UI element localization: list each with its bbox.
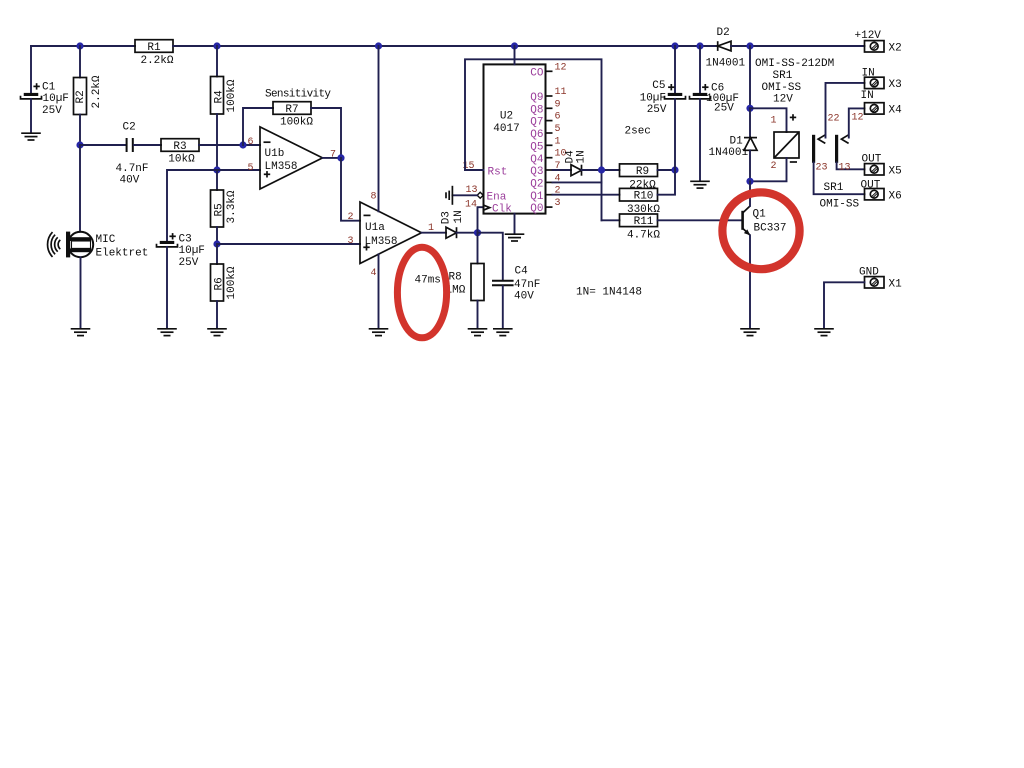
pin CO 12 — [530, 62, 566, 79]
svg-text:6: 6 — [555, 112, 561, 123]
svg-text:R5: R5 — [214, 203, 226, 216]
wire contact 13 to X5 — [837, 163, 865, 170]
svg-text:22: 22 — [828, 113, 840, 124]
svg-text:47nF: 47nF — [514, 279, 540, 291]
svg-text:2: 2 — [770, 161, 776, 172]
svg-text:2sec: 2sec — [625, 126, 651, 138]
resistor R4 — [211, 77, 239, 115]
capacitor C5 — [640, 80, 686, 116]
ground C6 — [690, 181, 710, 188]
svg-text:R9: R9 — [636, 166, 649, 178]
wire R3 to U1b pin6 — [199, 144, 260, 146]
node junction U2 VDD/rail — [511, 42, 518, 49]
wire pin3 row — [217, 243, 360, 245]
ground U1a pin4 — [369, 329, 389, 336]
wire Q1 to R10 — [553, 194, 620, 196]
svg-text:12: 12 — [852, 112, 864, 123]
svg-text:C1: C1 — [42, 82, 56, 94]
svg-text:Q0: Q0 — [530, 203, 543, 215]
terminal X2 — [855, 30, 902, 54]
svg-text:13: 13 — [839, 163, 851, 174]
svg-text:C4: C4 — [515, 266, 529, 278]
pin Q9 11 — [530, 87, 566, 104]
svg-text:Q1: Q1 — [753, 209, 767, 221]
svg-text:1: 1 — [555, 136, 561, 147]
pin Q6 5 — [530, 124, 560, 141]
wire U1a pin4 — [378, 254, 380, 328]
svg-text:47ms: 47ms — [415, 275, 441, 287]
svg-text:25V: 25V — [42, 105, 62, 117]
wire X1 to ground — [824, 282, 865, 328]
pin Q5 1 — [530, 136, 560, 153]
capacitor C6 — [690, 83, 740, 115]
svg-text:X2: X2 — [889, 42, 902, 54]
relay contact arrow left — [818, 135, 825, 144]
wire R5 bottom — [216, 227, 218, 244]
ground U2 VSS — [505, 234, 525, 241]
svg-text:R7: R7 — [285, 104, 298, 116]
ground X1 — [814, 329, 834, 336]
svg-text:Q9: Q9 — [530, 92, 543, 104]
svg-text:C3: C3 — [179, 234, 192, 246]
svg-text:Q6: Q6 — [530, 129, 543, 141]
ground C4 — [493, 329, 513, 336]
svg-text:IN: IN — [861, 90, 874, 102]
capacitor C3 — [157, 233, 205, 269]
wire top rail right segment to X2 — [731, 45, 865, 47]
node junction D1 bottom/Q1 collector — [746, 178, 753, 185]
node junction C5/rail — [671, 42, 678, 49]
ground C1 — [21, 133, 41, 140]
pin Q4 10 — [530, 149, 566, 166]
ground C3 — [157, 329, 177, 336]
wire C6 bottom — [699, 99, 701, 181]
wire C1 bottom — [30, 99, 32, 133]
wire Ena to ground — [452, 194, 477, 196]
resistor R9 — [620, 164, 658, 191]
wire C2 to R3 — [134, 144, 161, 146]
relay contact bar right — [835, 135, 838, 163]
resistor R11 — [620, 214, 661, 241]
node junction D4/R9/Rst — [598, 166, 605, 173]
node junction U1b out/R7 — [337, 154, 344, 161]
wire pin5 row — [167, 170, 260, 241]
resistor R3 — [161, 139, 199, 166]
svg-text:12: 12 — [555, 62, 567, 73]
svg-text:U2: U2 — [500, 111, 513, 123]
wire C3 bottom — [166, 247, 168, 328]
op-amp U1a — [348, 191, 435, 278]
pin Clk — [484, 204, 512, 216]
terminal X6 — [861, 180, 902, 203]
ground Q1 emitter — [740, 329, 760, 336]
svg-text:10µF: 10µF — [179, 245, 205, 257]
pin Q1 2 — [530, 186, 560, 203]
resistor R6 — [211, 244, 239, 328]
svg-text:Q2: Q2 — [530, 179, 543, 191]
svg-text:U1a: U1a — [365, 222, 385, 234]
svg-text:23: 23 — [816, 163, 828, 174]
wire D4 to R9 — [582, 169, 620, 171]
svg-text:25V: 25V — [179, 257, 199, 269]
svg-text:Clk: Clk — [492, 204, 512, 216]
wire Rst net — [465, 59, 602, 220]
wire node to C4 — [478, 233, 503, 280]
pin Q3 7 — [530, 161, 560, 178]
wire node to R8 — [477, 233, 479, 264]
resistor R10 — [620, 188, 661, 215]
svg-text:R4: R4 — [214, 90, 226, 104]
resistor R5 — [211, 190, 239, 227]
svg-text:4.7nF: 4.7nF — [116, 163, 149, 175]
wire R5 top — [216, 170, 218, 190]
svg-text:MIC: MIC — [96, 234, 116, 246]
node junction R2/C2/MIC — [76, 141, 83, 148]
svg-text:Q3: Q3 — [530, 166, 543, 178]
svg-text:6: 6 — [248, 137, 254, 148]
svg-text:14: 14 — [465, 200, 477, 211]
svg-text:LM358: LM358 — [365, 236, 398, 248]
wire Q3 to D4 — [553, 169, 572, 171]
wire U1b output — [323, 157, 342, 159]
pin Q2 4 — [530, 173, 560, 190]
svg-text:10µF: 10µF — [43, 93, 69, 105]
node junction R4/rail — [213, 42, 220, 49]
wire Q1 emitter — [749, 235, 751, 328]
svg-text:8: 8 — [371, 191, 377, 202]
svg-text:100kΩ: 100kΩ — [226, 266, 238, 299]
wire U2 VSS — [514, 214, 516, 234]
svg-text:BC337: BC337 — [754, 223, 787, 235]
ground Ena (rotated) — [446, 186, 452, 205]
svg-text:9: 9 — [555, 99, 561, 110]
diode D3 — [441, 210, 465, 238]
pin Q0 3 — [530, 198, 560, 215]
capacitor C2 — [116, 122, 149, 187]
wire C6 column — [699, 46, 701, 93]
svg-text:22kΩ: 22kΩ — [629, 179, 656, 191]
node junction U1a pin8/rail — [375, 42, 382, 49]
wire contact 22 to X3 — [826, 83, 865, 138]
node junction R2/rail — [76, 42, 83, 49]
wire relay branch down — [749, 46, 751, 108]
svg-text:R6: R6 — [214, 277, 226, 290]
svg-text:12V: 12V — [773, 94, 793, 106]
svg-text:X6: X6 — [889, 190, 902, 202]
wire C4 bottom — [502, 286, 504, 328]
node junction D1/coil top — [746, 105, 753, 112]
svg-text:4017: 4017 — [493, 123, 519, 135]
svg-text:Elektret: Elektret — [96, 248, 149, 260]
wire C1 top — [30, 46, 32, 93]
annotation red circle Q1 — [722, 192, 799, 269]
svg-text:U1b: U1b — [265, 148, 285, 160]
svg-text:Q7: Q7 — [530, 117, 543, 129]
node junction R4/R5/pin5 — [213, 166, 220, 173]
relay contact arrow right — [841, 135, 848, 144]
wire U2 VDD — [514, 46, 516, 64]
svg-text:40V: 40V — [514, 291, 534, 303]
svg-text:R2: R2 — [75, 90, 87, 103]
svg-text:R11: R11 — [634, 216, 654, 228]
wire coil top — [750, 108, 787, 132]
svg-text:R8: R8 — [449, 271, 462, 283]
svg-text:Q1: Q1 — [530, 191, 544, 203]
svg-text:40V: 40V — [120, 175, 140, 187]
svg-text:D3: D3 — [441, 211, 453, 224]
wire Q2 row — [553, 181, 602, 183]
svg-text:IN: IN — [862, 68, 875, 80]
svg-text:25V: 25V — [714, 102, 734, 114]
capacitor C4 — [492, 266, 540, 303]
node junction R9/R10/C5 — [671, 166, 678, 173]
node junction R5/R6/pin3 — [213, 240, 220, 247]
svg-text:Q4: Q4 — [530, 154, 544, 166]
pin Rst 15 — [463, 161, 508, 179]
terminal X1 — [859, 266, 902, 290]
resistor R1 — [135, 40, 174, 67]
wire R4 top — [216, 46, 218, 77]
pin Q7 6 — [530, 112, 560, 129]
wire contact 23 to X6 — [814, 163, 865, 195]
diode D1 — [709, 108, 758, 181]
svg-text:10kΩ: 10kΩ — [168, 153, 195, 165]
ground MIC — [71, 329, 91, 336]
wire MIC top — [79, 145, 81, 232]
svg-text:CO: CO — [530, 67, 544, 79]
diode D4 — [565, 150, 588, 176]
svg-text:R3: R3 — [173, 141, 186, 153]
svg-text:10µF: 10µF — [640, 92, 666, 104]
wire U1b out to U1a pin2 — [341, 158, 360, 221]
svg-text:1N4001: 1N4001 — [709, 147, 749, 159]
relay contact bar left — [812, 135, 815, 163]
transistor Q1 BC337 — [743, 206, 787, 236]
svg-text:C2: C2 — [123, 122, 136, 134]
svg-text:1N4001: 1N4001 — [706, 58, 746, 70]
svg-text:D1: D1 — [730, 136, 744, 148]
pin Q8 9 — [530, 99, 560, 116]
svg-text:Q5: Q5 — [530, 141, 543, 153]
svg-text:X1: X1 — [889, 278, 903, 290]
pin Ena 13 14 — [465, 185, 507, 211]
wire node to C2 — [80, 144, 126, 146]
wire contact 12 to X4 — [849, 108, 865, 137]
svg-text:11: 11 — [555, 87, 567, 98]
wire U1a pin8 power — [378, 46, 380, 211]
svg-text:1N: 1N — [576, 150, 588, 163]
microphone MIC Elektret — [48, 232, 149, 260]
node junction D3/R8/C4/Clk — [474, 229, 481, 236]
wire C5 bottom to node — [674, 99, 676, 170]
wire R7 drop — [243, 108, 273, 145]
ground R8 — [468, 329, 488, 336]
diode D2 — [706, 27, 746, 69]
svg-text:3.3kΩ: 3.3kΩ — [226, 190, 238, 223]
svg-text:C5: C5 — [652, 80, 665, 92]
wire coil bottom — [750, 158, 787, 181]
wire D3 to node — [457, 232, 478, 234]
resistor R7 — [265, 89, 331, 129]
svg-text:D2: D2 — [717, 27, 730, 39]
svg-text:OMI-SS: OMI-SS — [762, 82, 802, 94]
resistor R2 — [74, 75, 104, 114]
svg-text:1N= 1N4148: 1N= 1N4148 — [576, 287, 642, 299]
svg-text:2.2kΩ: 2.2kΩ — [91, 75, 103, 108]
svg-text:100kΩ: 100kΩ — [226, 79, 238, 112]
svg-text:Rst: Rst — [488, 167, 508, 179]
terminal X3 — [862, 68, 902, 91]
op-amp U1b — [248, 127, 337, 189]
svg-text:5: 5 — [555, 124, 561, 135]
node junction R7 drop — [239, 141, 246, 148]
node junction relay branch/rail — [746, 42, 753, 49]
resistor R8 — [446, 264, 485, 301]
svg-text:4: 4 — [371, 268, 377, 279]
capacitor C1 — [21, 82, 69, 117]
wire R7 right to output — [311, 108, 341, 158]
svg-text:+12V: +12V — [855, 30, 882, 42]
svg-text:1N: 1N — [453, 210, 465, 223]
svg-text:100kΩ: 100kΩ — [280, 116, 313, 128]
svg-text:Sensitivity: Sensitivity — [265, 89, 331, 101]
svg-text:4.7kΩ: 4.7kΩ — [627, 229, 660, 241]
svg-text:R1: R1 — [147, 42, 161, 54]
wire Q1 collector — [749, 181, 751, 206]
wire R2 bottom — [79, 115, 81, 146]
wire R11 to Q1 base — [658, 219, 742, 221]
wire R4 bottom — [216, 114, 218, 170]
wire node to Clk — [478, 207, 484, 233]
svg-text:1: 1 — [770, 116, 776, 127]
svg-text:OUT: OUT — [861, 180, 881, 192]
wire U1a output — [422, 232, 447, 234]
svg-text:2: 2 — [348, 212, 354, 223]
wire R2 top — [79, 46, 81, 78]
svg-text:X4: X4 — [889, 105, 903, 117]
svg-text:SR1: SR1 — [773, 70, 793, 82]
svg-text:X5: X5 — [889, 165, 902, 177]
svg-text:13: 13 — [466, 185, 478, 196]
wire top +12V rail left segment — [31, 45, 135, 47]
svg-text:GND: GND — [859, 266, 879, 278]
wire R8 bottom — [477, 301, 479, 329]
svg-text:OMI-SS: OMI-SS — [820, 198, 860, 210]
svg-text:R10: R10 — [634, 191, 654, 203]
svg-text:Ena: Ena — [487, 192, 507, 204]
svg-text:OMI-SS-212DM: OMI-SS-212DM — [755, 58, 834, 70]
svg-text:X3: X3 — [889, 79, 902, 91]
wire C5 column — [674, 46, 676, 93]
svg-text:LM358: LM358 — [265, 161, 298, 173]
svg-text:25V: 25V — [647, 104, 667, 116]
svg-text:3: 3 — [348, 236, 354, 247]
wire MIC bottom — [80, 257, 82, 328]
svg-text:SR1: SR1 — [824, 182, 844, 194]
svg-text:3: 3 — [555, 198, 561, 209]
relay coil SR1 — [770, 114, 799, 172]
wire R9 right — [658, 169, 676, 171]
terminal X5 — [862, 154, 902, 178]
node junction C6/rail — [696, 42, 703, 49]
wire R10 right up to node — [658, 170, 676, 195]
ground R6 — [207, 329, 227, 336]
wire R11 left — [602, 219, 620, 221]
svg-text:Q8: Q8 — [530, 104, 543, 116]
svg-text:5: 5 — [248, 163, 254, 174]
wire top rail middle segment — [173, 45, 717, 47]
terminal X4 — [861, 90, 903, 116]
svg-text:OUT: OUT — [862, 154, 882, 166]
svg-text:2.2kΩ: 2.2kΩ — [140, 55, 173, 67]
IC U2 4017 — [484, 64, 546, 213]
annotation red ellipse 47ms — [397, 247, 446, 338]
